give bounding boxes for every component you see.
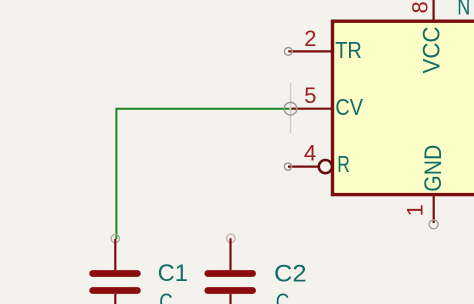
svg-text:R: R [337, 151, 350, 177]
svg-text:1: 1 [403, 204, 428, 216]
svg-text:5: 5 [304, 83, 316, 108]
svg-text:4: 4 [304, 140, 316, 165]
pin 4 end circle [284, 163, 291, 170]
svg-text:8: 8 [408, 1, 433, 13]
svg-text:C2: C2 [274, 260, 307, 287]
pin 5 end circle [284, 102, 297, 115]
pin 1 GND line (bottom, vertical) [433, 196, 435, 223]
C1 top plate [93, 270, 138, 277]
C1 bottom plate [93, 287, 138, 294]
pin 2 end circle [284, 48, 292, 56]
pin 8 VCC line (top, vertical) [433, 0, 435, 21]
C2 top plate [208, 270, 253, 277]
wire (CV net: horizontal then vertical down to C1) [116, 109, 289, 239]
C2 top lead [229, 238, 231, 270]
svg-text:C: C [159, 288, 173, 304]
svg-text:N: N [457, 0, 470, 20]
capacitor C2 [208, 234, 253, 304]
svg-text:GND: GND [420, 145, 447, 192]
svg-text:C1: C1 [158, 260, 188, 287]
pin 4 R line [288, 166, 319, 168]
C2 bottom plate [208, 287, 253, 294]
IC U1 body (555 timer symbol) [333, 21, 474, 194]
pin 4 inversion bubble [319, 160, 332, 173]
C1 bottom lead [114, 294, 116, 304]
pin 5 CV line [291, 108, 332, 110]
svg-text:TR: TR [335, 37, 362, 63]
pin 1 end circle [429, 220, 438, 229]
C1 top lead [114, 239, 116, 270]
svg-text:VCC: VCC [418, 27, 445, 74]
pin 2 TR line [288, 50, 331, 52]
capacitor C1 [93, 234, 138, 304]
cursor crosshair [290, 83, 292, 134]
svg-text:2: 2 [304, 26, 316, 51]
svg-text:C: C [276, 288, 290, 304]
C2 bottom lead [229, 294, 231, 304]
svg-text:CV: CV [335, 94, 363, 120]
C1 top pin circle [111, 234, 119, 242]
C2 top pin circle [227, 234, 236, 243]
